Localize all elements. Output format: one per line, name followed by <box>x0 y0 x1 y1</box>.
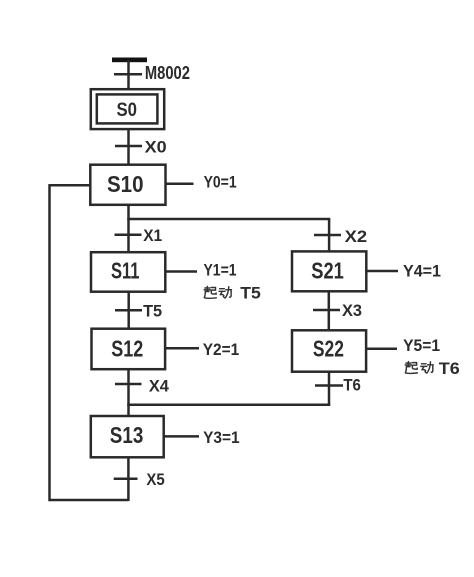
svg-text:T6: T6 <box>343 376 361 395</box>
svg-text:X5: X5 <box>146 470 164 489</box>
svg-text:Y2=1: Y2=1 <box>203 340 240 359</box>
svg-text:S22: S22 <box>313 336 344 362</box>
svg-text:S10: S10 <box>107 171 144 197</box>
svg-text:Y4=1: Y4=1 <box>403 262 441 281</box>
svg-text:Y1=1: Y1=1 <box>204 261 237 280</box>
svg-text:T5: T5 <box>143 302 162 321</box>
svg-text:T5: T5 <box>240 284 261 303</box>
svg-text:X1: X1 <box>143 226 162 245</box>
svg-text:T6: T6 <box>439 359 460 378</box>
svg-text:X0: X0 <box>145 138 167 157</box>
svg-text:X4: X4 <box>149 377 170 396</box>
svg-text:Y3=1: Y3=1 <box>203 428 240 447</box>
svg-text:M8002: M8002 <box>145 63 190 83</box>
svg-text:Y0=1: Y0=1 <box>204 173 237 192</box>
svg-text:S12: S12 <box>111 336 143 362</box>
svg-text:S0: S0 <box>117 100 138 121</box>
svg-text:S11: S11 <box>111 258 140 284</box>
svg-text:S13: S13 <box>110 422 144 448</box>
svg-text:X3: X3 <box>342 301 362 320</box>
svg-text:X2: X2 <box>345 227 368 246</box>
svg-text:Y5=1: Y5=1 <box>403 336 440 355</box>
svg-text:S21: S21 <box>311 258 344 284</box>
